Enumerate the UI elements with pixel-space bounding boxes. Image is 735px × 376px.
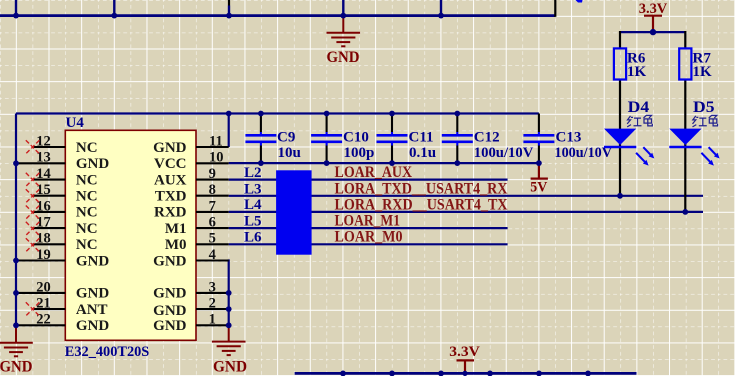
- svg-text:RXD: RXD: [154, 205, 187, 221]
- junction left bus pin13: [13, 160, 19, 166]
- svg-text:GND: GND: [76, 156, 110, 172]
- wire VCC rail pin10 to C13/5V: [229, 162, 539, 164]
- junction bottom x441: [438, 371, 444, 376]
- svg-text:100u/10V: 100u/10V: [555, 145, 613, 161]
- no-ERC marker pin15: [26, 189, 40, 203]
- junction RXD D5: [682, 209, 688, 215]
- pin 11 wire: [196, 146, 229, 148]
- partial blue glyph at top edge: [576, 0, 583, 3]
- svg-text:TXD: TXD: [155, 189, 187, 205]
- wire net L6 M0: [229, 243, 508, 245]
- no-ERC marker pin12: [26, 140, 40, 154]
- pin stub (black) up at x555 wire end corner: [554, 0, 556, 17]
- pin 5 wire: [196, 243, 229, 245]
- junction left bus pin20: [13, 290, 19, 296]
- no-ERC marker pin21: [26, 302, 40, 316]
- junction rail1 C9: [258, 111, 264, 117]
- pin 16 wire: [33, 211, 66, 213]
- pin 12 wire: [33, 146, 66, 148]
- junction rail1 C12: [454, 111, 460, 117]
- power port 5V: [531, 163, 548, 179]
- junction VCC C10: [324, 160, 330, 166]
- LED D5: [669, 99, 719, 166]
- pin 7 wire: [196, 211, 229, 213]
- svg-text:D5: D5: [693, 99, 715, 116]
- pin 17 wire: [33, 227, 66, 229]
- svg-text:M0: M0: [165, 237, 187, 253]
- junction rail1 C11: [389, 111, 395, 117]
- svg-text:NC: NC: [76, 221, 98, 237]
- junction VCC C9: [258, 160, 264, 166]
- junction top wire x343: [340, 13, 346, 19]
- wire GND rail above U4 to C13: [16, 112, 539, 114]
- svg-text:1K: 1K: [693, 64, 713, 80]
- junction top wire x441: [438, 13, 444, 19]
- junction right bus pin2: [226, 306, 232, 312]
- pin 22 wire: [17, 324, 65, 326]
- wire stub up at x229: [228, 6, 230, 16]
- wire stub up at x441: [440, 0, 442, 16]
- svg-text:C10: C10: [343, 130, 369, 146]
- wire stub up at x114: [113, 0, 115, 16]
- svg-text:GND: GND: [0, 358, 33, 375]
- svg-text:20: 20: [36, 279, 51, 295]
- pin 18 wire: [33, 243, 66, 245]
- pin 21 wire: [33, 308, 66, 310]
- pin 14 wire: [33, 179, 66, 181]
- wire net L2 AUX: [229, 179, 508, 181]
- junction right bus pin3: [226, 290, 232, 296]
- svg-text:L3: L3: [244, 181, 262, 197]
- junction bottom x392: [389, 371, 395, 376]
- svg-text:ANT: ANT: [76, 302, 108, 318]
- junction 3.3V resistor node: [650, 29, 656, 35]
- svg-text:10u: 10u: [278, 145, 301, 161]
- no-ERC marker pin17: [26, 222, 40, 236]
- capacitor C11: [377, 114, 437, 164]
- IC U4 body: [65, 130, 196, 340]
- svg-text:C13: C13: [556, 130, 582, 146]
- svg-text:LOAR_AUX: LOAR_AUX: [335, 164, 413, 181]
- junction right bus pin1: [226, 322, 232, 328]
- no-ERC marker pin18: [26, 238, 40, 252]
- pin 6 wire: [196, 227, 229, 229]
- junction bottom x588: [585, 371, 591, 376]
- svg-text:9: 9: [209, 166, 216, 182]
- wire (black) D5 anode vertical: [684, 80, 686, 212]
- svg-text:NC: NC: [76, 205, 98, 221]
- junction left bus pin22: [13, 322, 19, 328]
- pin 20 wire: [17, 292, 65, 294]
- svg-text:1K: 1K: [627, 64, 647, 80]
- svg-text:100p: 100p: [344, 145, 375, 161]
- junction bottom x343: [340, 371, 346, 376]
- ground symbol top (net GND): [327, 16, 361, 47]
- svg-text:C12: C12: [474, 130, 500, 146]
- wire stub up at x16: [15, 0, 17, 16]
- svg-text:M1: M1: [165, 221, 187, 237]
- junction VCC C11: [389, 160, 395, 166]
- power port 3.3V top-right: [644, 16, 662, 32]
- junction TXD D4: [617, 193, 623, 199]
- pin 4 wire: [196, 259, 229, 261]
- svg-text:LORA_RXD__USART4_TX: LORA_RXD__USART4_TX: [335, 196, 509, 213]
- label 红色 for D4: [627, 115, 652, 127]
- capacitor C13: [523, 114, 612, 164]
- svg-text:NC: NC: [76, 140, 98, 156]
- junction top wire x16: [13, 13, 19, 19]
- svg-text:GND: GND: [153, 140, 187, 156]
- junction rail1 C10: [324, 111, 330, 117]
- pin 10 wire: [196, 162, 229, 164]
- wire top GND rail horizontal: [0, 14, 555, 17]
- wire net L4 RXD: [229, 211, 703, 213]
- svg-text:1: 1: [209, 312, 216, 328]
- svg-text:GND: GND: [213, 359, 247, 376]
- svg-text:4: 4: [209, 247, 216, 263]
- svg-text:NC: NC: [76, 237, 98, 253]
- junction VCC C12: [454, 160, 460, 166]
- wire net L3 TXD: [229, 195, 703, 197]
- junction left bus pin19: [13, 258, 19, 264]
- wire net L5 M1: [229, 227, 508, 229]
- LED D4: [604, 99, 654, 166]
- svg-text:GND: GND: [76, 286, 110, 302]
- pin 19 wire: [17, 259, 65, 261]
- wire pin11 vertical to top rail: [228, 114, 230, 148]
- svg-text:5V: 5V: [530, 179, 547, 195]
- svg-text:19: 19: [36, 247, 51, 263]
- junction bottom x490: [487, 371, 493, 376]
- wire pin4 down to GND vertical: [228, 261, 229, 326]
- svg-text:LOAR_M0: LOAR_M0: [335, 229, 403, 246]
- svg-text:L4: L4: [244, 197, 262, 213]
- svg-text:C9: C9: [277, 130, 295, 146]
- junction top wire x114: [111, 13, 117, 19]
- svg-text:6: 6: [209, 215, 216, 231]
- svg-text:LOAR_M1: LOAR_M1: [335, 213, 401, 230]
- svg-text:0.1u: 0.1u: [409, 145, 436, 161]
- svg-text:7: 7: [209, 198, 216, 214]
- pin 8 wire: [196, 195, 229, 197]
- junction VCC C13 5V: [536, 160, 542, 166]
- svg-text:L2: L2: [244, 165, 262, 181]
- pin 3 wire: [196, 292, 229, 294]
- wire (black) D4 anode vertical: [619, 80, 621, 196]
- svg-text:GND: GND: [76, 318, 110, 334]
- capacitor C9: [245, 114, 300, 164]
- svg-text:GND: GND: [76, 253, 110, 269]
- svg-text:C11: C11: [409, 130, 434, 146]
- svg-text:GND: GND: [153, 303, 187, 319]
- component block (blue rectangle) over nets L2-L6: [276, 170, 312, 254]
- wire left GND vertical bus: [15, 114, 17, 326]
- junction bottom 3.3V stem: [462, 371, 467, 376]
- wire stub up at x343: [342, 0, 344, 16]
- svg-text:AUX: AUX: [154, 172, 187, 188]
- capacitor C12: [442, 114, 534, 164]
- svg-text:5: 5: [209, 231, 216, 247]
- svg-text:GND: GND: [153, 253, 187, 269]
- pin 2 wire: [196, 308, 229, 310]
- power port 3.3V bottom: [457, 360, 475, 373]
- svg-text:NC: NC: [76, 189, 98, 205]
- label 红色 for D5: [693, 115, 718, 127]
- svg-text:GND: GND: [327, 49, 360, 66]
- svg-text:VCC: VCC: [154, 156, 187, 172]
- no-ERC marker pin16: [26, 206, 40, 220]
- svg-text:U4: U4: [66, 115, 85, 131]
- svg-text:3.3V: 3.3V: [639, 1, 668, 17]
- svg-text:L5: L5: [244, 214, 262, 230]
- svg-text:LORA_TXD__USART4_RX: LORA_TXD__USART4_RX: [335, 180, 509, 197]
- svg-text:GND: GND: [153, 286, 187, 302]
- svg-text:NC: NC: [76, 172, 98, 188]
- ground symbol bottom-left (net GND): [0, 325, 33, 356]
- wire 3.3V to resistors horizontal: [620, 31, 685, 33]
- svg-text:L6: L6: [244, 230, 262, 246]
- resistor R7: [679, 48, 712, 80]
- capacitor C10: [311, 114, 374, 164]
- svg-text:2: 2: [209, 296, 216, 312]
- svg-text:100u/10V: 100u/10V: [474, 145, 534, 161]
- svg-text:D4: D4: [628, 99, 650, 116]
- svg-text:E32_400T20S: E32_400T20S: [65, 344, 150, 360]
- wire (black) corner down to R7: [684, 31, 686, 48]
- ground symbol bottom-right (net GND): [212, 325, 246, 355]
- pin stub (black) above x229: [228, 0, 230, 6]
- pin 15 wire: [33, 195, 66, 197]
- junction bottom x539: [536, 371, 542, 376]
- svg-text:11: 11: [209, 133, 223, 149]
- wire (black) corner down to R6: [619, 31, 621, 48]
- wire bottom 3.3V rail: [295, 372, 637, 375]
- svg-text:GND: GND: [153, 318, 187, 334]
- pin 1 wire: [196, 324, 229, 326]
- svg-text:10: 10: [209, 150, 224, 166]
- svg-text:8: 8: [209, 182, 216, 198]
- resistor R6: [614, 48, 647, 80]
- no-ERC marker pin14: [26, 173, 40, 187]
- junction rail1 x229: [226, 111, 232, 117]
- pin 13 wire: [17, 162, 65, 164]
- svg-text:3: 3: [209, 279, 216, 295]
- svg-text:3.3V: 3.3V: [449, 344, 480, 360]
- junction top wire x229: [226, 13, 232, 19]
- pin 9 wire: [196, 179, 229, 181]
